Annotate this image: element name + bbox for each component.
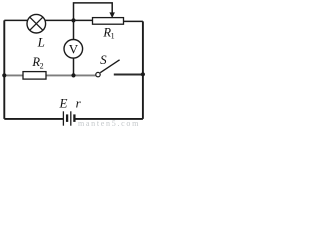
svg-text:2: 2 — [40, 62, 44, 71]
svg-text:1: 1 — [111, 32, 115, 41]
svg-text:L: L — [37, 34, 45, 49]
svg-text:manten5.com: manten5.com — [78, 119, 140, 127]
svg-text:S: S — [100, 52, 107, 67]
svg-text:V: V — [69, 42, 79, 57]
svg-text:E: E — [59, 96, 68, 111]
